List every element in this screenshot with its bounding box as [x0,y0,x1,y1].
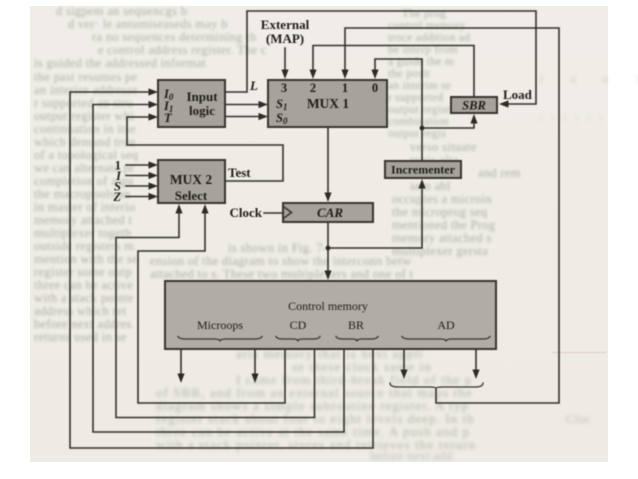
wire Test loop to T [127,117,283,181]
wire CAR branch to incrementer [328,187,422,248]
arrowhead MAP down [281,70,288,80]
wire BR bit to I1 [93,105,344,433]
svg-text:logic: logic [189,103,215,118]
arrowheads AD down [400,370,407,380]
box input logic [158,80,225,127]
wire MUX2 input stub S [126,185,150,187]
wire CD bit to MUX2 select b [116,212,315,418]
svg-text:SBR: SBR [462,99,486,113]
box CAR [283,203,373,222]
svg-text:AD: AD [437,318,455,332]
svg-text:Microops: Microops [197,318,243,332]
svg-text:(MAP): (MAP) [266,31,304,46]
svg-text:Load: Load [503,87,533,102]
wire incrementer output to MUX1 input 0 [375,59,422,161]
arrowhead into I1 [149,101,159,108]
wire SBR output to MUX1 input 2 [313,46,474,98]
wire incrementer branch to SBR bottom [422,122,474,128]
wire MUX1 output to CAR [327,127,329,194]
wire L: input logic to top frame to SBR load [225,11,536,104]
wire clock input [264,212,283,214]
wire CAR output to control memory [327,222,329,272]
wire MUX2 input stub 1 [126,164,150,166]
wire MUX2 input stub I [126,175,150,177]
arrowhead Load into SBR right [499,100,509,107]
svg-text:Control memory: Control memory [288,299,368,313]
wire S0: input logic to MUX1 [225,116,260,118]
arrowhead into S0 [259,113,269,120]
svg-text:CAR: CAR [317,205,343,220]
arrowhead into I0 [149,88,159,95]
arrowheads microops down [177,374,184,384]
svg-text:MUX 1: MUX 1 [307,96,350,111]
svg-text:CD: CD [290,318,307,332]
brace under Microops [178,337,262,342]
brace under BR [336,337,378,342]
arrowhead into T [149,113,159,120]
box incrementer [385,161,461,178]
svg-text:L: L [249,78,258,93]
arrowhead CAR into control memory [324,271,331,281]
svg-text:Select: Select [175,188,208,203]
svg-text:Clock: Clock [230,205,263,220]
gather brace under AD arrows [390,383,483,389]
svg-text:Input: Input [186,89,218,104]
wire MUX2 input stub Z [126,196,150,198]
svg-text:Incrementer: Incrementer [391,163,456,177]
svg-text:0: 0 [372,81,378,95]
box SBR [451,97,497,113]
arrowhead MUX2 select b up [175,204,182,214]
box MUX 2 [158,160,225,203]
wire AD output arrow stems [403,342,405,371]
brace under AD [402,337,490,342]
arrowhead into incrementer bottom [418,179,425,189]
box control memory [165,281,496,349]
arrowhead MUX1 out into CAR [324,193,331,203]
arrowhead incrementer to MUX1 input0 [371,70,378,80]
arrowheads MUX2 input stubs [149,161,159,168]
box MUX 1 [268,80,387,127]
wire External MAP arrow stem [284,48,286,71]
arrowhead AD to MUX1 input1 [341,70,348,80]
wire S1: input logic to MUX1 [225,104,260,106]
brace under CD [276,337,320,342]
svg-text:Z: Z [112,190,121,204]
wire microops output arrow stems [180,342,182,375]
svg-text:Test: Test [228,165,251,180]
clock triangle on CAR [284,207,292,218]
svg-text:1: 1 [342,81,348,95]
arrowhead MUX2 select a up [201,204,208,214]
wire AD field to right side to MUX1 input 1 [345,28,559,403]
arrowhead into S1 [259,101,269,108]
junction dot CAR/incrementer [326,246,331,251]
wire BR bit to I0 [70,92,373,448]
svg-text:External: External [261,17,310,32]
arrowhead SBR to MUX1 input2 [309,70,316,80]
arrowhead into SBR bottom [470,114,477,124]
wire CD bit to MUX2 select a [138,212,285,403]
svg-text:3: 3 [281,81,287,95]
junction dot incrementer/SBR [420,126,425,131]
svg-text:2: 2 [310,81,316,95]
svg-text:BR: BR [348,318,364,332]
svg-text:MUX 2: MUX 2 [170,172,213,187]
